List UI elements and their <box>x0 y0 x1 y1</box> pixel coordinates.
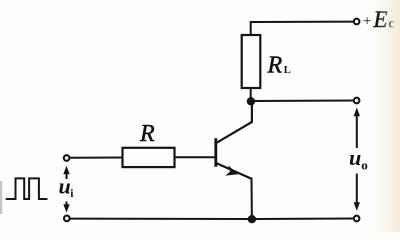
svg-text:R: R <box>139 121 155 147</box>
terminal +Ec <box>354 19 360 25</box>
terminal input top <box>64 155 70 161</box>
wire emitter vertical to bottom junction <box>251 179 253 220</box>
square wave input symbol <box>6 178 48 199</box>
wire top rail from RL top corner to +Ec terminal <box>251 22 354 35</box>
terminal input bottom <box>64 216 70 222</box>
scan artifact: left edge smudge <box>0 181 2 214</box>
wire collector junction to output top terminal <box>251 100 353 103</box>
wire RL bottom to collector junction <box>250 88 252 102</box>
collector lead <box>217 101 252 143</box>
svg-text:R: R <box>267 53 283 79</box>
svg-text:u: u <box>59 174 71 199</box>
terminal output top <box>354 98 360 104</box>
wire input terminal to resistor R <box>70 157 123 159</box>
voltage arrow uo <box>354 108 360 211</box>
resistor R <box>123 148 175 167</box>
scan artifact: right edge cream band <box>376 0 400 232</box>
node emitter junction <box>248 215 256 223</box>
wire bottom rail <box>70 218 354 221</box>
voltage arrow ui <box>63 166 69 213</box>
node collector junction <box>247 97 255 105</box>
svg-text:+: + <box>363 13 371 29</box>
svg-text:o: o <box>361 157 368 172</box>
resistor RL <box>242 35 261 88</box>
emitter lead <box>217 163 252 179</box>
svg-text:L: L <box>284 65 291 76</box>
wire resistor R to transistor base <box>175 156 215 158</box>
base bar <box>214 138 217 167</box>
transistor Q1 <box>216 101 252 179</box>
svg-text:u: u <box>349 145 361 170</box>
terminal output bottom <box>354 216 360 222</box>
emitter arrowhead <box>225 165 238 175</box>
